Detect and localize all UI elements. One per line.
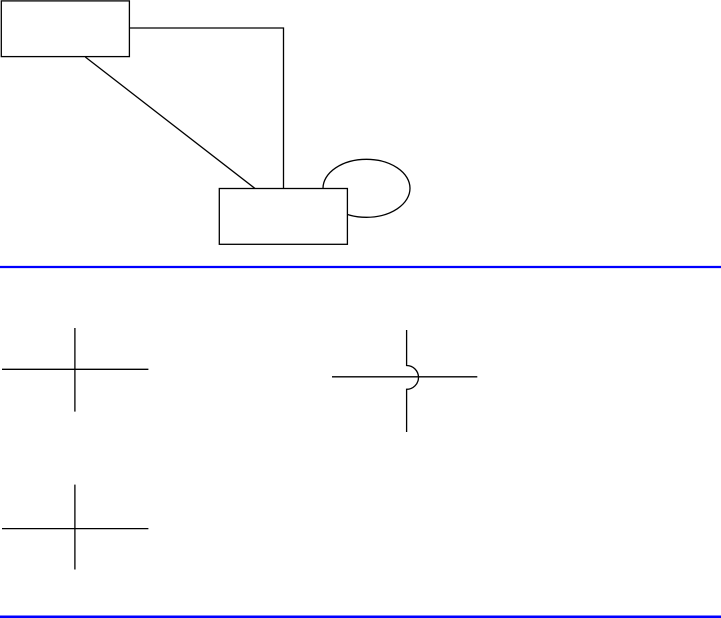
wire crossing with hop: horizontal wire xyxy=(332,376,477,378)
wire crossing 2: vertical wire xyxy=(74,485,76,570)
wire crossing with hop: vertical wire with semicircular jump xyxy=(407,330,419,432)
wire crossing 1: horizontal wire xyxy=(2,368,148,370)
wire: diagonal connector from box A to box B xyxy=(85,57,255,189)
blue horizontal rule (top separator) xyxy=(0,266,721,268)
wire crossing 2: horizontal wire xyxy=(2,528,148,530)
wire crossing 1: vertical wire xyxy=(74,328,76,412)
ellipse self-loop on box B xyxy=(323,159,410,217)
box A (upper-left rectangle) xyxy=(1,1,129,57)
blue horizontal rule (bottom separator) xyxy=(0,616,721,618)
wire: right-angle connector from box A to box B xyxy=(129,28,283,189)
box B (lower rectangle) xyxy=(219,189,347,245)
